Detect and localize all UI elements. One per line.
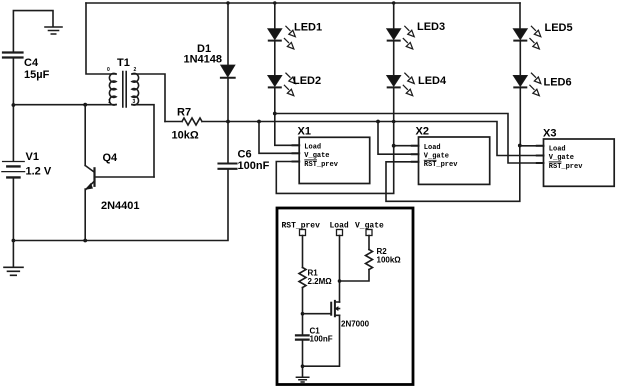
pin square Load (337, 230, 343, 236)
wire: X2 V_gate drop (378, 122, 419, 155)
label R1 (308, 269, 333, 287)
wire: primary top to top rail (86, 3, 116, 74)
label X1 (298, 126, 339, 169)
wire: node to transformer primary bottom (13, 104, 116, 106)
svg-text:C6: C6 (238, 149, 252, 161)
diode D1 1N4148 (221, 65, 235, 78)
svg-text:15µF: 15µF (24, 69, 50, 81)
LED LED1 (268, 26, 296, 49)
junction: Load2 node (392, 144, 396, 148)
svg-text:LED2: LED2 (293, 75, 321, 87)
svg-text:1N4148: 1N4148 (184, 54, 223, 66)
junction: R2 tap on load line (338, 279, 342, 283)
MOSFET Q1 2N7000 (331, 301, 339, 316)
label C4 (24, 57, 50, 81)
resistor R1 2.2M (299, 268, 306, 288)
wire: Load3 node to X3 Load (520, 145, 544, 147)
svg-text:2.2MΩ: 2.2MΩ (308, 277, 333, 286)
ground (top left) (45, 27, 62, 34)
wire: C1 bottom to ground (302, 340, 304, 377)
label X3 (543, 128, 583, 171)
label LED4 (418, 75, 447, 87)
LED LED4 (387, 73, 415, 96)
wire: rail to LED3 (393, 3, 395, 29)
svg-text:LED6: LED6 (544, 77, 572, 89)
junction: gate node (301, 312, 305, 316)
wire: R2 to load line (340, 270, 370, 282)
label R7 (172, 107, 199, 142)
junction: rail left (12, 239, 16, 243)
wire: bottom rail to C6 (13, 170, 228, 241)
wire: source to ground node (303, 315, 340, 366)
svg-text:1: 1 (108, 99, 111, 105)
overline RST X2 (424, 159, 437, 161)
svg-text:V_gate: V_gate (549, 154, 574, 162)
ground (subcircuit) (296, 377, 308, 382)
subcircuit X1 box (293, 137, 370, 183)
svg-text:C4: C4 (24, 57, 39, 69)
svg-text:Load: Load (424, 144, 441, 152)
junction: emitter on rail (83, 239, 87, 243)
wire: V_gate pin to R2 (368, 236, 370, 250)
svg-text:2N4401: 2N4401 (101, 200, 140, 212)
label V_gate (detail) (355, 222, 384, 231)
svg-text:X3: X3 (543, 128, 556, 140)
junction: crossing blob (392, 120, 396, 124)
wire: rail to D1 anode (227, 3, 229, 65)
svg-text:Q4: Q4 (103, 152, 119, 164)
svg-text:V_gate: V_gate (304, 152, 329, 160)
capacitor C1 (296, 335, 309, 339)
wire: LED2 to X1 Load (275, 89, 299, 146)
pin square RST_prev (300, 230, 306, 236)
battery V1 (2, 162, 25, 178)
label C1 (310, 327, 333, 344)
LED LED6 (513, 73, 541, 96)
wire: LED5 to LED6 (519, 42, 521, 75)
wire: LED4 to Load2 node (393, 89, 395, 146)
svg-text:V_gate: V_gate (355, 222, 384, 231)
svg-text:RST_prev: RST_prev (424, 161, 458, 169)
wire: V1 bottom to rail (12, 178, 14, 241)
junction: X1 V_gate tap (257, 120, 261, 124)
wire: secondary top to R7 (132, 74, 165, 122)
subcircuit X3 box (537, 139, 614, 186)
wire: Load1 net to X3 RST_prev (275, 114, 544, 164)
resistor R7 10k (165, 118, 228, 125)
wire: Load pin to drain (339, 236, 341, 303)
label LED5 (545, 22, 573, 34)
subcircuit X2 box (412, 137, 490, 184)
wire: LED1 to LED2 (274, 42, 276, 75)
svg-text:2N7000: 2N7000 (341, 320, 370, 329)
wire: node down to C6 (227, 122, 229, 163)
LED LED2 (268, 73, 296, 96)
transformer T1 (109, 72, 138, 108)
svg-text:100kΩ: 100kΩ (377, 256, 402, 265)
svg-text:RST_prev: RST_prev (304, 161, 338, 169)
wire: gate lead (303, 313, 332, 315)
junction: C4/V1/primary node (12, 103, 16, 107)
overline RST X3 (549, 161, 562, 163)
wire: LED6 to Load3 node (519, 89, 521, 146)
wire: X1 RST_prev to Load2 net (276, 146, 393, 194)
label LED1 (294, 22, 322, 34)
label RST_prev (detail) (282, 222, 321, 231)
svg-text:3: 3 (133, 99, 136, 105)
svg-text:T1: T1 (117, 57, 130, 69)
label 2N7000 (341, 320, 370, 329)
label D1 (184, 43, 223, 66)
label LED6 (544, 77, 572, 89)
label LED3 (417, 21, 445, 33)
junction: Load1 bus tap (273, 112, 277, 116)
svg-text:100nF: 100nF (238, 160, 270, 172)
junction: LED1 rail tap (273, 1, 276, 4)
pin square V_gate (366, 230, 372, 236)
wire: LED3 to LED4 (393, 42, 395, 75)
LED LED5 (513, 26, 541, 49)
junction: Load3 node (518, 144, 522, 148)
label R2 (377, 247, 402, 265)
ground (bottom left) (4, 241, 23, 276)
svg-text:X2: X2 (416, 126, 429, 138)
subcircuit detail box (277, 208, 413, 385)
wire: Load2 node to X2 Load (394, 145, 419, 147)
junction: D1 top rail tap (226, 1, 229, 4)
wire: X2 RST_prev to Load3 net (386, 146, 520, 202)
resistor R2 100k (366, 250, 373, 270)
junction: LED3 rail tap (392, 1, 395, 4)
junction: D1/C6 node (226, 120, 230, 124)
svg-text:1.2 V: 1.2 V (26, 166, 52, 178)
svg-text:Load: Load (549, 146, 566, 154)
wire: X1 V_gate drop (259, 122, 299, 154)
svg-text:X1: X1 (298, 126, 311, 138)
svg-text:RST_prev: RST_prev (282, 222, 321, 231)
svg-text:100nF: 100nF (310, 335, 333, 344)
transistor Q4 2N4401 (85, 105, 94, 241)
svg-text:Load: Load (304, 144, 321, 152)
svg-text:10kΩ: 10kΩ (172, 130, 199, 142)
wire: secondary bottom to base (132, 105, 154, 177)
svg-text:LED4: LED4 (418, 75, 447, 87)
label V1 (26, 151, 52, 178)
wire: D1 cathode to node (227, 79, 229, 122)
svg-text:V_gate: V_gate (424, 153, 449, 161)
svg-text:Load: Load (330, 222, 349, 231)
wire: top rail (86, 2, 520, 4)
junction: X2 V_gate tap (376, 120, 380, 124)
wire: rail corner to LED5 (519, 3, 521, 29)
label X2 (416, 126, 459, 170)
wire: rail to LED1 (274, 3, 276, 29)
svg-text:LED3: LED3 (417, 21, 445, 33)
junction: source/ground node (301, 364, 305, 368)
junction: collector tap (83, 103, 87, 107)
svg-text:V1: V1 (26, 151, 39, 163)
wire: C4 bottom to node (12, 59, 14, 161)
svg-text:R7: R7 (177, 107, 191, 119)
overline RST X1 (304, 159, 317, 161)
svg-text:2: 2 (134, 67, 137, 73)
label C6 (238, 149, 270, 173)
label Q4 (101, 152, 140, 212)
svg-text:0: 0 (107, 67, 110, 73)
capacitor C6 (219, 164, 237, 169)
wire: RST_prev pin to R1 (302, 236, 304, 268)
label T1 (107, 57, 137, 105)
svg-text:LED5: LED5 (545, 22, 573, 34)
wire: V_gate net (R7 node to X3 V_gate) (228, 122, 544, 156)
svg-text:LED1: LED1 (294, 22, 322, 34)
LED LED3 (387, 26, 415, 49)
wire: C4 top to ground (13, 11, 53, 52)
svg-text:RST_prev: RST_prev (549, 163, 583, 171)
wire: Q4 base lead (95, 176, 155, 178)
label Load (detail) (330, 222, 349, 231)
label LED2 (293, 75, 321, 87)
wire: R1 to gate node (302, 288, 304, 336)
capacitor C4 (3, 53, 23, 58)
